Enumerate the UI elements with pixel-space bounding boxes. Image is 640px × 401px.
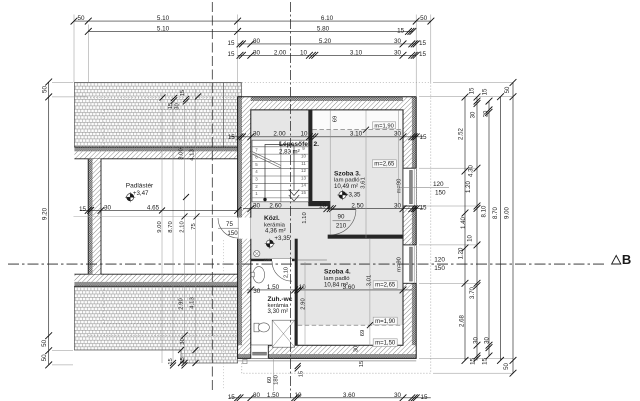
svg-text:120: 120	[434, 257, 445, 264]
east wall main building	[412, 97, 416, 169]
window W3 south wall	[251, 345, 268, 358]
svg-text:120: 120	[433, 181, 444, 188]
south outer render line	[238, 360, 417, 362]
svg-text:1.20: 1.20	[465, 180, 472, 192]
svg-text:1.50: 1.50	[267, 392, 280, 399]
svg-text:30: 30	[104, 204, 112, 211]
svg-text:9.20: 9.20	[41, 207, 48, 220]
svg-text:Zuh.-wc: Zuh.-wc	[268, 296, 293, 303]
window sill label 60/180 south window	[273, 352, 275, 391]
interior dimension line Kozl + Szoba 3 lower (y=208.7)	[243, 208, 423, 210]
svg-text:69: 69	[332, 116, 338, 123]
svg-text:15: 15	[468, 87, 475, 94]
svg-text:15: 15	[481, 358, 488, 365]
svg-text:50: 50	[420, 15, 428, 22]
svg-text:15: 15	[359, 360, 365, 367]
headroom label m=1,90 Szoba 4	[373, 317, 397, 325]
svg-text:10: 10	[294, 392, 302, 399]
partition Kozl / bathroom	[251, 259, 272, 262]
svg-text:2,83 m²: 2,83 m²	[279, 148, 300, 155]
svg-text:15: 15	[168, 358, 174, 365]
svg-text:10: 10	[300, 49, 308, 56]
svg-text:m=1,90: m=1,90	[375, 319, 396, 325]
svg-text:15: 15	[79, 206, 87, 213]
wall Szoba 3 / Szoba 4	[328, 235, 403, 239]
svg-text:9.00: 9.00	[504, 206, 511, 218]
svg-text:15: 15	[469, 358, 476, 365]
svg-text:3.10: 3.10	[350, 131, 363, 138]
door bathroom swing	[272, 261, 292, 281]
svg-text:30: 30	[472, 337, 479, 344]
roof joint line upper	[223, 83, 225, 148]
axis line vertical 1	[211, 2, 213, 390]
svg-text:50: 50	[77, 15, 85, 22]
interior dimension line stair + Szoba 3 (y=136.8)	[230, 136, 423, 138]
svg-text:1.40: 1.40	[460, 216, 467, 228]
interior dimension line Padlaster (y=210.4)	[80, 209, 238, 211]
bottom dimension chain	[230, 397, 431, 399]
floor drain symbol	[254, 251, 260, 257]
svg-text:2.90: 2.90	[300, 298, 306, 310]
reference line Szoba 3 east	[398, 110, 400, 206]
svg-text:B: B	[622, 252, 631, 267]
svg-text:30: 30	[469, 111, 476, 118]
window W2 east wall	[403, 245, 416, 283]
svg-text:14: 14	[301, 183, 306, 188]
main building inner boundary lines	[251, 110, 403, 345]
wall stair landing south	[308, 201, 330, 206]
svg-text:4.13: 4.13	[190, 149, 196, 161]
svg-text:30: 30	[394, 49, 402, 56]
svg-text:8.70: 8.70	[168, 221, 174, 233]
svg-text:m=2,65: m=2,65	[374, 162, 395, 168]
main building outer boundary lines	[238, 97, 417, 359]
svg-text:50: 50	[503, 363, 510, 370]
svg-text:+3,47: +3,47	[133, 190, 149, 197]
svg-text:15: 15	[228, 394, 236, 401]
headroom label m=1,50 Szoba 4	[373, 339, 397, 347]
north wall main building	[238, 97, 417, 101]
svg-text:60: 60	[267, 377, 273, 383]
svg-text:30: 30	[483, 337, 490, 344]
svg-text:2.68: 2.68	[458, 314, 465, 326]
dotted reference line below Padlaster door	[223, 240, 225, 390]
washbasin	[253, 267, 265, 283]
svg-text:10: 10	[301, 154, 306, 159]
svg-text:10,49 m²: 10,49 m²	[334, 183, 358, 190]
svg-text:2.10: 2.10	[180, 221, 186, 233]
roof plane upper (hatched)	[74, 83, 241, 148]
svg-text:75: 75	[226, 221, 233, 228]
svg-text:1.50: 1.50	[267, 284, 280, 291]
room fill Kozl	[251, 203, 327, 259]
svg-text:1.10: 1.10	[302, 212, 308, 224]
step dim ticks at lower roof notch	[178, 347, 184, 353]
left building bottom wall	[74, 274, 237, 282]
svg-text:2.60: 2.60	[269, 203, 282, 210]
west wall main building	[238, 97, 242, 218]
svg-text:30: 30	[394, 392, 402, 399]
svg-text:Közl.: Közl.	[264, 215, 280, 222]
svg-text:2,10: 2,10	[283, 267, 289, 278]
staircase	[252, 140, 309, 202]
svg-text:3,30 m²: 3,30 m²	[268, 308, 289, 315]
svg-text:5.10: 5.10	[157, 15, 170, 22]
svg-text:1.20: 1.20	[457, 247, 464, 259]
svg-text:15: 15	[299, 370, 305, 377]
south wall main building	[238, 345, 251, 354]
svg-text:150: 150	[227, 230, 238, 237]
svg-text:150: 150	[434, 265, 445, 272]
knee wall line Padlaster (y=216.4)	[74, 215, 238, 217]
svg-text:5.20: 5.20	[319, 38, 332, 45]
jamb lines across west wall opening	[237, 218, 239, 239]
svg-text:4,36 m²: 4,36 m²	[265, 228, 286, 235]
svg-text:69: 69	[360, 330, 366, 337]
svg-text:3.60: 3.60	[343, 392, 356, 399]
partition bathroom / Szoba 4	[295, 239, 298, 346]
right dimension chains extension lines	[419, 96, 513, 98]
headroom dashed line Szoba 3 (m=1.90)	[312, 129, 403, 131]
stair walking line with arrow	[265, 145, 294, 200]
svg-text:10: 10	[466, 235, 473, 242]
svg-text:15: 15	[228, 134, 236, 141]
svg-text:5.80: 5.80	[317, 26, 330, 33]
svg-text:30: 30	[394, 131, 402, 138]
svg-text:4.65: 4.65	[147, 204, 160, 211]
axis line vertical 2 (dash-dot)	[290, 2, 292, 398]
svg-text:2.90: 2.90	[179, 298, 185, 310]
svg-text:15: 15	[420, 205, 428, 212]
svg-text:15: 15	[227, 40, 235, 47]
svg-text:3.60: 3.60	[343, 284, 356, 291]
svg-text:180: 180	[274, 375, 280, 385]
svg-text:15: 15	[419, 40, 427, 47]
svg-text:50: 50	[41, 354, 48, 362]
wc toilet	[254, 323, 259, 332]
svg-text:Padlástér: Padlástér	[126, 183, 154, 190]
svg-text:m=1,90: m=1,90	[374, 123, 394, 129]
svg-text:10: 10	[300, 131, 308, 138]
svg-text:3,01: 3,01	[366, 275, 372, 286]
svg-text:3.00: 3.00	[179, 148, 185, 160]
svg-text:2.52: 2.52	[457, 127, 464, 139]
svg-text:30: 30	[253, 392, 261, 399]
svg-text:30: 30	[253, 131, 261, 138]
top dimension chain line 1	[74, 20, 431, 22]
wall Kozl / Szoba 3 jamb	[328, 206, 331, 209]
svg-text:15: 15	[397, 27, 405, 34]
svg-text:Szoba 3.: Szoba 3.	[334, 170, 361, 177]
right dimension chain 5	[512, 83, 514, 374]
right dimension chain 3	[488, 101, 490, 356]
interior vertical dim Szoba 3 (69 / 3,61)	[365, 111, 367, 239]
level marker Kozl	[266, 240, 273, 247]
headroom label m=2,65 Szoba 4	[373, 281, 397, 289]
svg-text:15: 15	[419, 51, 427, 58]
headroom label m=2,65 Szoba 3	[372, 160, 396, 168]
svg-text:30: 30	[482, 110, 489, 117]
top dimension chain line 4	[238, 54, 417, 56]
ridge/eave dotted lines lower roof	[88, 334, 237, 336]
svg-text:4.13: 4.13	[190, 297, 196, 309]
svg-text:Lépcsőfel. 2.: Lépcsőfel. 2.	[279, 141, 319, 148]
svg-text:30: 30	[353, 345, 359, 352]
svg-text:30: 30	[253, 38, 261, 45]
svg-text:5.10: 5.10	[157, 26, 170, 33]
stair break line	[252, 152, 281, 166]
svg-text:m=2,65: m=2,65	[375, 283, 396, 289]
reference line Szoba 3 west	[329, 110, 331, 234]
svg-text:228: 228	[264, 257, 271, 262]
svg-text:8.70: 8.70	[492, 206, 499, 218]
svg-text:4.30: 4.30	[467, 164, 474, 176]
right dimension chain 2	[476, 97, 478, 360]
svg-text:+3,35: +3,35	[274, 235, 290, 242]
svg-text:2.50: 2.50	[351, 203, 364, 210]
svg-text:3.70: 3.70	[469, 286, 476, 298]
svg-text:30: 30	[253, 49, 261, 56]
room fill stair hall	[251, 110, 308, 203]
svg-text:30: 30	[253, 203, 261, 210]
partition stair / Szoba 3	[308, 110, 312, 203]
interior vertical dim Szoba 4 (3,01 / 69 / 30 / 15)	[369, 239, 371, 346]
level marker Szoba 3	[339, 191, 346, 198]
svg-text:m=1,50: m=1,50	[375, 341, 396, 347]
headroom dashed line Szoba 4 (m=1.90)	[298, 324, 403, 326]
svg-text:15: 15	[420, 134, 428, 141]
svg-text:30: 30	[180, 338, 186, 345]
svg-text:30: 30	[394, 203, 402, 210]
svg-text:15: 15	[421, 394, 429, 401]
svg-text:15: 15	[481, 88, 488, 95]
svg-text:50: 50	[504, 86, 511, 93]
top dimension chain line 3	[238, 43, 417, 45]
room fill Szoba 3	[312, 130, 403, 235]
headroom label m=1,90 Szoba 3	[373, 122, 396, 129]
svg-text:m=90: m=90	[396, 257, 402, 272]
svg-text:10: 10	[319, 203, 327, 210]
svg-text:11: 11	[301, 161, 306, 166]
section line B-B	[8, 263, 607, 265]
svg-text:90: 90	[338, 214, 345, 221]
svg-text:30: 30	[175, 103, 181, 110]
left building west wall	[88, 159, 92, 274]
svg-text:9.00: 9.00	[157, 221, 163, 233]
level marker Padlaster	[127, 194, 134, 201]
svg-text:12: 12	[301, 168, 306, 173]
ridge/eave dotted lines upper roof	[87, 97, 238, 99]
left building top wall	[74, 147, 237, 151]
svg-text:210: 210	[336, 223, 347, 230]
svg-text:m=90: m=90	[396, 179, 402, 194]
svg-text:13: 13	[301, 175, 306, 180]
window W1 east wall	[403, 168, 416, 206]
svg-text:50: 50	[41, 339, 48, 347]
svg-text:Szoba 4.: Szoba 4.	[324, 268, 351, 275]
svg-text:3.10: 3.10	[350, 49, 363, 56]
door Szoba 3 (90/210) leaf and swing	[331, 209, 356, 211]
right dimension chain 4	[500, 97, 502, 361]
svg-text:50: 50	[41, 86, 48, 94]
svg-text:3,61: 3,61	[360, 177, 366, 188]
svg-text:15: 15	[168, 102, 174, 109]
roof plane lower (hatched)	[74, 286, 237, 363]
interior vertical dim bathroom (2.90)	[304, 262, 306, 345]
svg-text:30: 30	[394, 38, 402, 45]
extension lines to top dimension chain	[73, 15, 75, 83]
section marker B triangle	[612, 256, 621, 265]
interior dimension line bathroom + Szoba 4 (y=289.9)	[247, 289, 412, 291]
svg-text:2.00: 2.00	[274, 49, 287, 56]
right dimension chain 1	[464, 97, 466, 360]
drain box at south west corner	[243, 359, 247, 363]
svg-text:15: 15	[180, 89, 186, 96]
svg-text:75: 75	[191, 223, 197, 230]
window W1 sill line	[399, 187, 449, 189]
svg-text:6.10: 6.10	[321, 15, 334, 22]
left dimension chain	[48, 82, 50, 365]
shower tray	[272, 320, 295, 347]
top dimension chain line 2	[88, 30, 413, 32]
svg-text:8.10: 8.10	[481, 205, 488, 217]
svg-text:15: 15	[301, 190, 306, 195]
svg-text:15: 15	[227, 51, 235, 58]
room fill Szoba 4	[298, 239, 403, 326]
svg-text:150: 150	[435, 189, 446, 196]
opening Padlaster to Kozl (75/150) with swing	[218, 218, 238, 238]
svg-text:30: 30	[253, 288, 261, 295]
interior vertical reference lines left building	[161, 93, 163, 363]
svg-text:2.00: 2.00	[273, 131, 286, 138]
threshold line Kozl / Szoba 4	[298, 259, 327, 261]
roof overhang dotted outline main building	[242, 83, 431, 374]
